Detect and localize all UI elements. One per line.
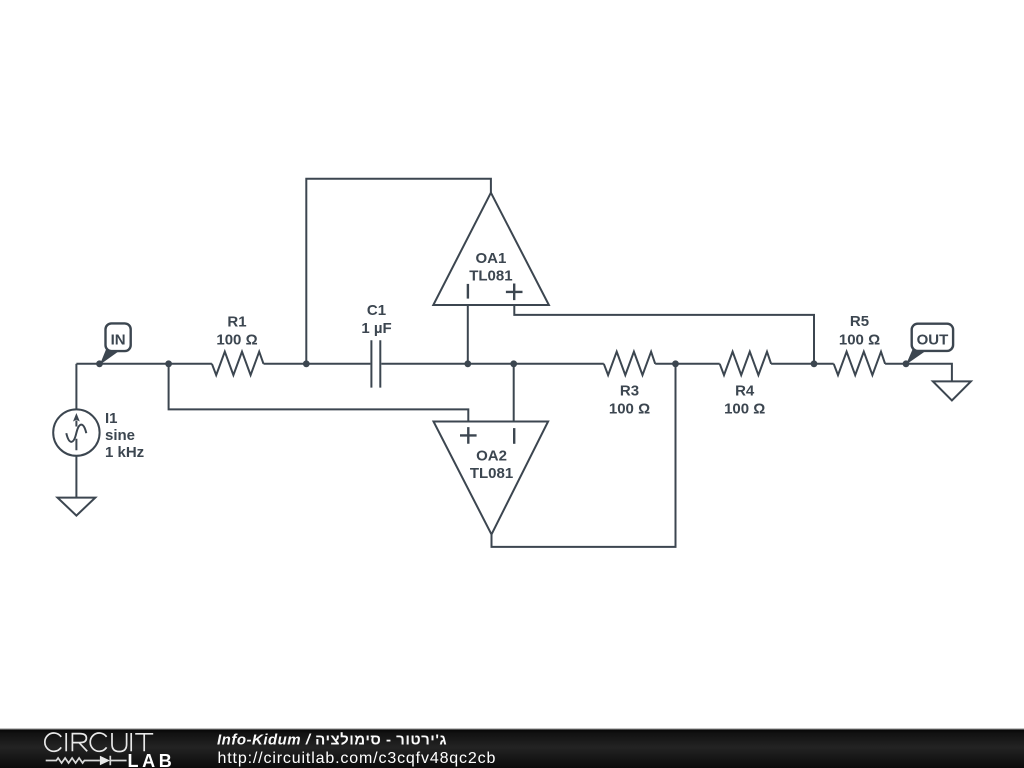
svg-text:sine: sine [105,427,135,444]
logo CIRCUIT letters [45,733,153,752]
svg-text:1 kHz: 1 kHz [105,444,144,461]
svg-text:LAB: LAB [128,751,176,768]
wire OA2 output loop [492,364,676,547]
ground output [933,381,971,400]
wire node A to OA2 plus input [169,364,469,422]
resistor R5 [834,352,885,375]
svg-text:100 Ω: 100 Ω [839,331,880,348]
wire OA1 plus input loop [514,305,814,364]
flag IN box [106,323,131,351]
current source I1 arrow [75,421,77,451]
wire OA1 minus pin [467,305,469,364]
svg-text:OUT: OUT [917,332,949,349]
wire OA2 minus pin [513,364,515,422]
wire I1 bottom lead [75,455,77,497]
op-amp OA2 plus symbol [460,427,477,444]
svg-text:R4: R4 [735,382,755,399]
current source I1 sine mark [66,425,86,442]
ground I1 [58,498,96,516]
footer bar [0,729,1024,768]
resistor R1 [212,352,264,375]
svg-text:100 Ω: 100 Ω [724,400,765,417]
svg-text:TL081: TL081 [469,268,512,285]
node R3 R4 junction dot [672,360,679,367]
svg-text:100 Ω: 100 Ω [216,331,257,348]
op-amp OA1 plus symbol [506,284,523,301]
wire R3 to R4 [655,363,720,365]
node IN junction dot [96,360,103,367]
wire I1 top lead [75,364,77,410]
node OUT junction dot [903,360,910,367]
flag IN pointer [100,349,120,365]
wire R5 to output ground corner [885,364,952,382]
op-amp OA2 minus symbol [513,428,515,444]
wire R4 to R5 [771,363,834,365]
wire main net left segment [76,363,212,365]
op-amp OA1 minus symbol [467,284,469,299]
node R4 R5 junction dot [811,360,818,367]
svg-text:R1: R1 [227,313,246,330]
capacitor C1 [371,340,380,387]
svg-text:TL081: TL081 [470,465,513,482]
op-amp OA1 [433,193,549,305]
flag OUT pointer [906,349,926,365]
wire R1 to C1 [264,363,371,365]
svg-text:100 Ω: 100 Ω [609,400,650,417]
svg-text:Info-Kidum / ג'ירטור - סימולצי: Info-Kidum / ג'ירטור - סימולציה [217,731,447,748]
svg-text:1 µF: 1 µF [361,320,391,337]
logo resistor diode glyph [46,756,127,765]
svg-text:http://circuitlab.com/c3cqfv48: http://circuitlab.com/c3cqfv48qc2cb [218,750,497,767]
wire feedback OA1 output loop [306,179,491,364]
node feedback junction dot [303,360,310,367]
svg-text:OA2: OA2 [476,447,507,464]
resistor R4 [720,352,771,375]
node A junction dot [165,360,172,367]
svg-text:R5: R5 [850,313,869,330]
op-amp OA2 [434,422,549,535]
svg-text:I1: I1 [105,410,118,427]
svg-text:R3: R3 [620,382,639,399]
flag OUT box [912,324,953,351]
svg-text:OA1: OA1 [475,250,506,267]
svg-text:C1: C1 [367,302,386,319]
current source I1 circle [53,409,99,455]
wire C1 to R3 [381,363,604,365]
resistor R3 [604,352,655,375]
svg-text:IN: IN [111,331,126,348]
node OA2 minus junction dot [510,360,517,367]
node OA1 minus junction dot [464,360,471,367]
